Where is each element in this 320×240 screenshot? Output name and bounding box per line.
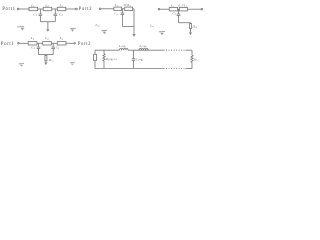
svg-text:gn+1: gn+1: [194, 57, 199, 62]
capacitor C2 branch: [133, 50, 135, 59]
inductor 0.5L2 (box): [125, 7, 133, 10]
mark under A right: [70, 27, 76, 29]
svg-text:C1: C1: [33, 13, 37, 18]
inductor L1 (box): [29, 7, 38, 10]
wire: [54, 16, 56, 22]
inductor L2 (box): [43, 7, 52, 10]
wire: [52, 8, 58, 10]
wire: [52, 49, 54, 55]
load branch: [191, 50, 193, 55]
wire join: [40, 21, 55, 23]
svg-text:C1: C1: [114, 11, 117, 16]
mark under D right: [70, 61, 75, 63]
svg-text:R0=g0=1: R0=g0=1: [105, 57, 117, 62]
resistor R0 branch: [103, 50, 105, 54]
port terminal circle: [99, 8, 101, 10]
capacitor C1 left: [37, 46, 41, 48]
svg-text:L3=g3: L3=g3: [139, 44, 147, 49]
wire: [66, 42, 74, 44]
wire: [45, 61, 47, 63]
wire to L3: [45, 54, 47, 57]
inductor L1 (box): [114, 7, 122, 10]
wire: [160, 8, 170, 10]
port terminal circle: [158, 8, 160, 10]
svg-text:C1: C1: [172, 11, 175, 16]
wire join: [122, 25, 134, 27]
inductor L1 (box): [57, 7, 66, 10]
wire join: [179, 22, 191, 24]
port terminal circle: [74, 43, 76, 45]
svg-text:L1: L1: [30, 3, 35, 8]
wire: [38, 8, 44, 10]
inductor L2 (box): [43, 42, 52, 45]
wire join: [39, 54, 54, 56]
svg-text:L1=g1: L1=g1: [118, 44, 126, 49]
mark under A left: [17, 26, 24, 28]
source box: [94, 54, 97, 60]
wire: [188, 8, 201, 10]
wire: [52, 42, 58, 44]
wire: [121, 15, 123, 27]
wire: [133, 8, 134, 10]
source branch: [94, 50, 96, 54]
svg-text:0.5L2: 0.5L2: [178, 4, 187, 9]
wire shunt C1: [178, 9, 180, 14]
svg-text:L1: L1: [59, 3, 64, 8]
svg-text:C2=g2: C2=g2: [136, 58, 143, 63]
ground arrow: [44, 62, 47, 65]
inductor L1 (box): [57, 42, 66, 45]
bottom wire: [95, 68, 164, 70]
mark under D left: [19, 62, 24, 64]
wire: [19, 8, 29, 10]
ground arrow: [132, 34, 135, 37]
wire: [122, 8, 125, 10]
inductor L1 (box): [169, 8, 177, 11]
svg-text:0.5L2: 0.5L2: [124, 3, 132, 8]
mark arrow C: [159, 30, 165, 32]
inductor 2L3 (vertical box): [190, 24, 192, 29]
port terminal circle: [18, 43, 20, 45]
top wire: [95, 49, 120, 51]
svg-text:Port2: Port2: [78, 42, 92, 47]
svg-text:2L3: 2L3: [192, 24, 197, 29]
wire: [19, 42, 28, 44]
inductor coil L3: [139, 48, 148, 50]
capacitor C1 right: [54, 13, 58, 15]
wire shunt left: [38, 43, 40, 47]
wire: [178, 16, 180, 23]
wire: [66, 8, 76, 10]
wire: [38, 49, 40, 55]
wire to ground: [47, 22, 49, 30]
wire right end down: [133, 9, 135, 34]
inductor coil L1: [120, 48, 128, 50]
wire: [190, 28, 192, 32]
svg-text:C1: C1: [31, 46, 35, 51]
wire down: [190, 22, 192, 25]
svg-text:L1: L1: [114, 3, 118, 8]
capacitor C1: [121, 12, 125, 14]
mark arrow B: [101, 29, 107, 31]
wire: [37, 42, 43, 44]
resistor gn+1 zigzag: [191, 55, 193, 62]
ground arrow: [46, 29, 49, 32]
port terminal circle Port2: [76, 8, 78, 10]
inductor L1 (box): [28, 42, 37, 45]
capacitor C1: [177, 13, 181, 15]
wire: [101, 8, 114, 10]
svg-text:2L3: 2L3: [49, 58, 54, 63]
port terminal circle Port1: [17, 8, 19, 10]
inductor 0.5L2 (box): [179, 8, 187, 11]
svg-text:Port1: Port1: [2, 7, 16, 12]
svg-text:C1: C1: [56, 46, 60, 51]
wire shunt left: [39, 9, 41, 14]
svg-text:L1: L1: [30, 36, 35, 41]
capacitor C1 left: [39, 13, 43, 15]
svg-text:Zin,o: Zin,o: [95, 23, 100, 28]
wire: [39, 16, 41, 22]
svg-text:Port2: Port2: [79, 7, 93, 12]
svg-text:Port1: Port1: [1, 42, 15, 47]
svg-text:C1: C1: [59, 13, 63, 18]
wire shunt C1: [121, 9, 123, 13]
svg-text:L1: L1: [59, 36, 64, 41]
resistor R0 zigzag: [103, 54, 105, 61]
open terminal circle: [201, 8, 203, 10]
wire shunt right: [52, 43, 54, 47]
ground arrow: [189, 32, 192, 35]
wire between boxes: [178, 8, 180, 10]
inductor 2L3 (vertical box): [45, 55, 47, 60]
svg-text:L1: L1: [170, 4, 174, 9]
svg-text:L2: L2: [44, 36, 49, 41]
svg-text:L2: L2: [44, 3, 49, 8]
svg-text:Zin,e: Zin,e: [150, 24, 155, 29]
wire shunt right: [54, 9, 56, 14]
capacitor C1 right: [51, 46, 55, 48]
